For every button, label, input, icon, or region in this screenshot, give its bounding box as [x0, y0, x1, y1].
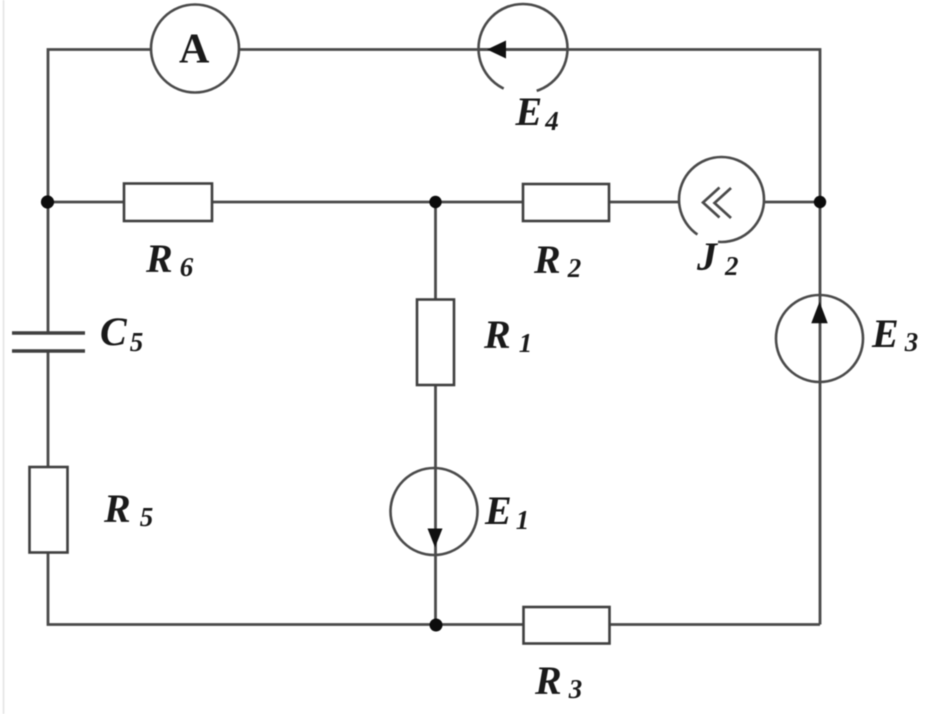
- resistor R1: [417, 300, 454, 386]
- wire top-left horizontal (node to ammeter): [48, 50, 151, 203]
- node C (right mid junction): [814, 196, 826, 208]
- wire top horizontal (ammeter to top-right corner): [239, 50, 820, 203]
- svg-text:R5: R5: [103, 486, 153, 532]
- resistor R6: [124, 184, 212, 222]
- node D (bottom junction): [430, 619, 443, 632]
- wire middle horizontal (node A to R6): [48, 201, 124, 204]
- resistor R2: [523, 184, 609, 221]
- svg-text:R1: R1: [483, 312, 532, 358]
- source E4: [479, 4, 568, 93]
- source E1: [391, 468, 478, 555]
- resistor R3: [524, 607, 610, 644]
- wire left vertical (capacitor to R5): [47, 351, 50, 467]
- wire center vertical (R1 through E1 to bottom node): [434, 385, 437, 625]
- wire bottom horizontal (R3 to bottom-right corner): [610, 623, 821, 626]
- wire left vertical (node to capacitor): [47, 202, 50, 333]
- svg-text:E1: E1: [484, 488, 529, 535]
- resistor R5: [30, 467, 68, 553]
- current source J2: [679, 157, 764, 242]
- wire middle horizontal (R6 to node B): [212, 201, 523, 204]
- wire middle horizontal (R2 to J2): [609, 201, 679, 204]
- capacitor C5: [12, 333, 85, 351]
- scan edge line left: [3, 0, 5, 714]
- svg-text:C5: C5: [100, 309, 143, 357]
- svg-text:R3: R3: [534, 658, 582, 704]
- node A (left mid junction): [41, 195, 54, 208]
- source E3: [776, 295, 863, 382]
- wire right vertical (node C through E3 to bottom corner): [819, 202, 822, 625]
- svg-text:R6: R6: [145, 236, 194, 282]
- svg-text:A: A: [179, 27, 210, 73]
- wire center vertical (node B to R1): [434, 202, 437, 300]
- ammeter A: [151, 5, 239, 93]
- wire left vertical (R5 to bottom corner): [48, 552, 524, 625]
- wire middle horizontal (J2 to node C): [764, 201, 820, 204]
- svg-text:E3: E3: [871, 311, 918, 357]
- svg-text:E4: E4: [515, 89, 559, 136]
- svg-text:R2: R2: [533, 237, 581, 283]
- node B (center mid junction): [429, 196, 441, 208]
